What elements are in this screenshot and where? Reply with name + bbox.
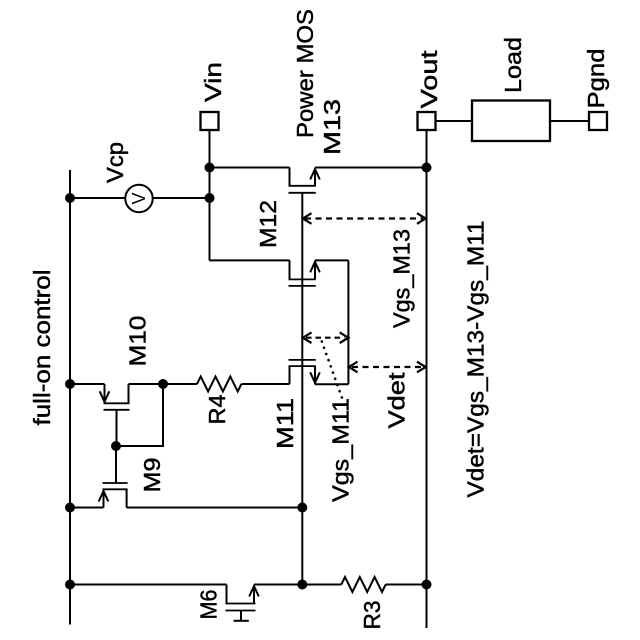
junction Vout-M13 xyxy=(423,164,431,172)
wire rail to Vcp xyxy=(70,197,125,199)
wire bottom rail left xyxy=(70,584,227,586)
svg-text:Power MOS: Power MOS xyxy=(292,9,318,138)
wire R4 to M11 xyxy=(242,383,290,385)
wire common gate line xyxy=(301,193,303,585)
voltage source Vcp xyxy=(125,185,152,212)
svg-text:Vgs_M11: Vgs_M11 xyxy=(328,398,354,502)
label Vgs_M13 xyxy=(389,229,415,328)
label Pgnd xyxy=(583,49,609,109)
label Vout xyxy=(416,50,442,109)
transistor M11 xyxy=(289,360,320,384)
svg-text:Load: Load xyxy=(500,37,526,93)
label Vdet xyxy=(384,372,410,429)
junction Vin-M13 xyxy=(206,164,214,172)
wire node A to R4 xyxy=(163,383,197,385)
leader line Vgs_M11 xyxy=(322,342,344,403)
svg-text:R4: R4 xyxy=(204,394,230,424)
label Vgs_M11 xyxy=(328,398,354,502)
wire left rail (full-on control bus) xyxy=(69,170,71,625)
label Vin xyxy=(200,62,226,102)
junction rail-M10 xyxy=(66,380,74,388)
wire M12 source xyxy=(315,259,348,261)
svg-text:Vdet=Vgs_M13-Vgs_M11: Vdet=Vgs_M13-Vgs_M11 xyxy=(463,221,489,498)
svg-text:Vdet: Vdet xyxy=(384,372,410,429)
transistor M13 power MOS xyxy=(289,168,320,193)
wire Vout line xyxy=(426,130,428,628)
label M11 xyxy=(272,398,298,449)
label full-on control xyxy=(29,270,55,426)
svg-text:Pgnd: Pgnd xyxy=(583,49,609,109)
wire Vcp to node Vin xyxy=(153,197,210,199)
wire rail to M10 xyxy=(70,383,105,385)
transistor M10 xyxy=(100,384,130,410)
transistor M6 xyxy=(226,585,259,621)
terminal pad Vout xyxy=(418,112,436,130)
label M6 xyxy=(196,590,222,620)
junction rail-M9 xyxy=(66,504,74,512)
transistor M12 sense MOS xyxy=(289,260,320,286)
label Power MOS xyxy=(292,9,318,138)
junction gate line-M9 xyxy=(298,504,306,512)
junction M10 gate-drain xyxy=(112,442,120,450)
terminal pad Vin xyxy=(201,112,219,130)
junction rail-bottom xyxy=(66,581,74,589)
wire M6 to gate line xyxy=(254,584,302,586)
wire M13 source to Vout line xyxy=(315,167,427,169)
svg-text:R3: R3 xyxy=(359,601,385,630)
junction gate line-bottom xyxy=(298,581,306,589)
svg-text:Vout: Vout xyxy=(416,50,442,109)
svg-text:full-on control: full-on control xyxy=(29,270,55,426)
measure arrow Vgs_M11 xyxy=(303,332,349,343)
measure arrow Vgs_M13 xyxy=(303,213,426,224)
wire R3 to Vout line xyxy=(386,584,427,586)
junction Vin-Vcp xyxy=(206,194,214,202)
wire rail to M9 xyxy=(70,507,104,509)
svg-text:M6: M6 xyxy=(196,590,222,620)
wire M13 drain xyxy=(210,167,290,169)
label Vcp source V xyxy=(129,192,149,204)
wire Vout to Load xyxy=(436,120,473,122)
wire M9 to gate line xyxy=(127,507,303,509)
wire gate line to R3 xyxy=(302,584,341,586)
label M9 xyxy=(139,458,165,493)
wire Load to Pgnd xyxy=(550,120,589,122)
junction rail-Vcp xyxy=(66,194,74,202)
resistor R4 xyxy=(197,377,241,392)
svg-text:M10: M10 xyxy=(125,316,151,367)
svg-text:Vgs_M13: Vgs_M13 xyxy=(389,229,415,328)
wire M11 source right xyxy=(315,383,348,385)
terminal pad Pgnd xyxy=(589,112,607,130)
svg-text:M12: M12 xyxy=(255,200,281,248)
svg-text:Vin: Vin xyxy=(200,62,226,102)
label Vcp xyxy=(102,142,128,183)
transistor M9 xyxy=(99,483,128,508)
label Load xyxy=(500,37,526,93)
svg-text:M9: M9 xyxy=(139,458,165,493)
wire gate-drain loop xyxy=(116,384,163,446)
wire M10 gate stub xyxy=(116,410,118,446)
formula Vdet=Vgs_M13-Vgs_M11 xyxy=(463,221,489,498)
wire node Vin vertical xyxy=(209,168,211,261)
wire M9 gate stub xyxy=(115,446,117,483)
wire sense loop vertical xyxy=(347,260,349,384)
svg-text:M13: M13 xyxy=(319,99,345,155)
wire M10 drain to node A xyxy=(129,383,164,385)
label R4 xyxy=(204,394,230,424)
junction node A xyxy=(159,380,167,388)
measure arrow Vdet xyxy=(349,362,426,373)
label M13 xyxy=(319,99,345,155)
label M10 xyxy=(125,316,151,367)
svg-text:V: V xyxy=(129,192,149,204)
svg-text:Vcp: Vcp xyxy=(102,142,128,183)
junction Vout-R3 xyxy=(423,581,431,589)
label R3 xyxy=(359,601,385,630)
wire M12 drain xyxy=(210,259,290,261)
wire Vin pad down xyxy=(209,130,211,168)
svg-text:M11: M11 xyxy=(272,398,298,449)
resistor R3 xyxy=(341,577,385,592)
label M12 xyxy=(255,200,281,248)
load resistor Load xyxy=(472,101,550,142)
